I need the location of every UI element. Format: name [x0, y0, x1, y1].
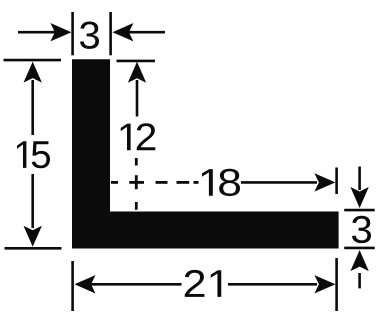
dimension 21: left arrow line [91, 283, 182, 286]
dimension 15 (left): lower arrow line [31, 174, 34, 228]
dimension 15 (left): label [17, 141, 50, 168]
dimension 3 (right): lower arrow line [358, 273, 361, 288]
dimension 15 (left): bottom extension line [5, 247, 62, 250]
dimension 12: arrowhead (points up) [128, 62, 146, 83]
dimension 15 (left): lower arrowhead (points down) [24, 226, 42, 247]
dimension 21 (bottom): left extension line [71, 261, 74, 311]
dimension 3 (top): label [80, 22, 99, 49]
dimension 18: solid arrow line [241, 181, 317, 184]
dimension 3 (right): label [352, 216, 371, 243]
dimension 18: label [202, 169, 240, 196]
dimension 3 (right): bottom extension line [344, 247, 375, 250]
dimension 3 (top): left extension line [71, 12, 74, 55]
dimension 15 (left): upper arrowhead (points up) [24, 62, 42, 83]
dimension 21: left arrowhead (points left) [75, 275, 96, 293]
dimension 21: label [185, 270, 222, 297]
dimension 21 (bottom): right extension line [335, 258, 338, 311]
dimension 12: dashed centerline continuation [135, 158, 138, 166]
dimension 3 (top): right arrow line [128, 31, 165, 34]
dimension 3 (right): upper arrowhead (points down) [350, 187, 368, 208]
L-angle profile cross-section (black solid) [72, 59, 339, 248]
dimension 3 (right): upper arrow line [358, 167, 361, 191]
dimension 15 (left): upper arrow line [31, 80, 34, 135]
dimension 18 (inner width): dashed line segments [111, 181, 118, 184]
dimension 21: right arrowhead (points right) [314, 275, 335, 293]
dimension 12: arrow line [136, 80, 139, 117]
dimension 3 (right): top extension line [344, 209, 375, 212]
dimension 3 (top): right arrowhead [112, 23, 133, 41]
dimension 18: arrowhead (points right) [314, 173, 335, 191]
dimension 21: right arrow line [228, 283, 317, 286]
dimension 15 (left): top extension line [4, 59, 62, 62]
dimension 12 (inner height): top extension line [117, 60, 156, 63]
dimension 3 (top): right extension line [109, 12, 112, 55]
dimension 3 (top): left arrow line [18, 31, 55, 34]
dimension 18: right extension line [335, 168, 338, 195]
dimension 12: label [121, 123, 156, 150]
dimension 3 (top): left arrowhead [50, 23, 71, 41]
dimension 3 (right): lower arrowhead (points up) [350, 250, 368, 271]
